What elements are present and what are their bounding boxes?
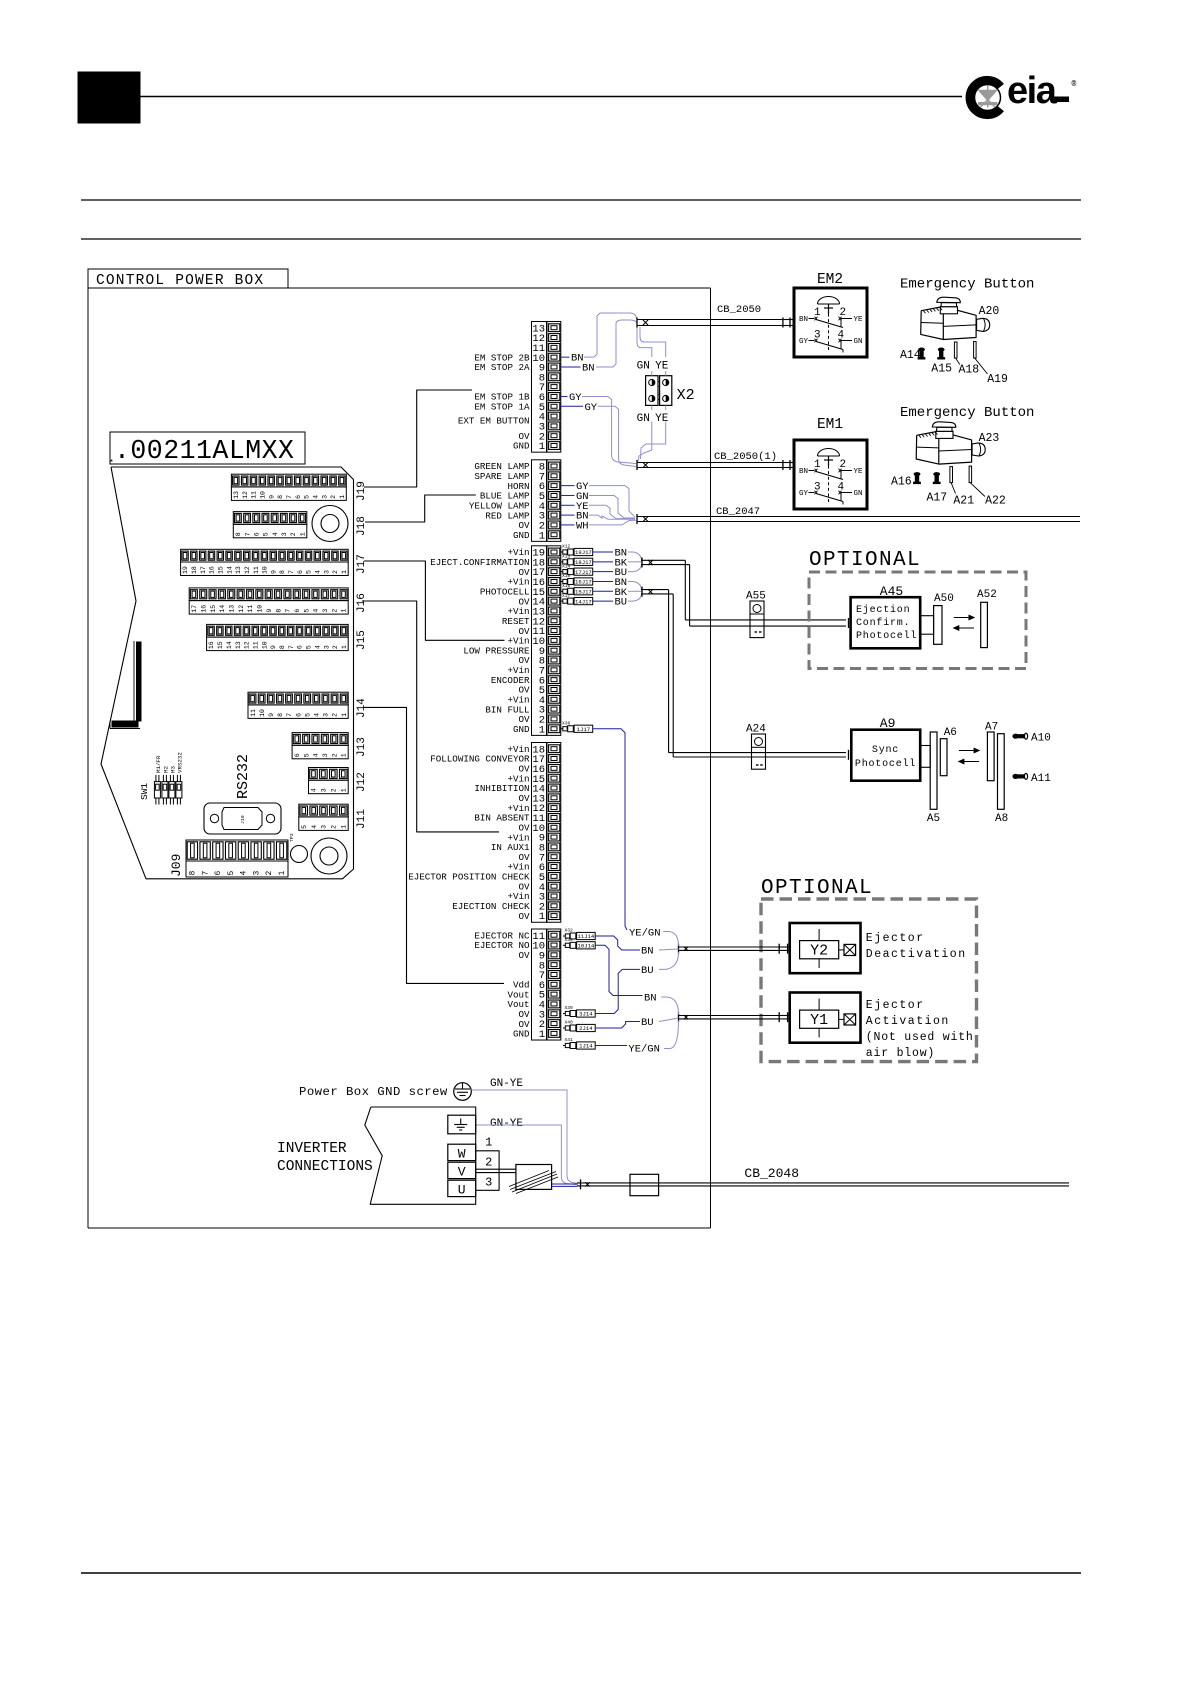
wire 1J14 to YE/GN — [595, 1045, 627, 1047]
emergency button A23 assembly — [913, 422, 985, 483]
svg-text:13: 13 — [235, 641, 242, 649]
terminal block (lamps/horn) — [469, 460, 561, 543]
svg-text:9: 9 — [270, 645, 277, 649]
svg-text:3: 3 — [321, 788, 328, 792]
lens A6 — [940, 739, 947, 776]
connector J12 — [309, 768, 349, 794]
svg-text:GN: GN — [854, 490, 863, 498]
svg-text:CB_2050(1): CB_2050(1) — [714, 451, 777, 463]
svg-text:4: 4 — [313, 753, 320, 757]
svg-text:9: 9 — [266, 609, 273, 613]
svg-text:EM2: EM2 — [817, 272, 843, 288]
svg-text:X36: X36 — [562, 720, 571, 726]
svg-text:CB_2050: CB_2050 — [717, 304, 761, 316]
A9 snout — [920, 746, 930, 768]
connector J13 — [292, 733, 348, 759]
wire lamp pin5 — [561, 494, 575, 496]
svg-text:RS232: RS232 — [235, 754, 252, 799]
svg-text:3: 3 — [323, 645, 330, 649]
screw A11 — [1012, 773, 1027, 779]
svg-text:CB_2048: CB_2048 — [744, 1166, 799, 1181]
svg-text:A23: A23 — [979, 432, 1000, 445]
cable CB_2048 — [577, 1179, 1069, 1189]
connector J14 — [248, 692, 348, 718]
svg-text:J13: J13 — [356, 737, 368, 757]
svg-text:BN: BN — [799, 468, 808, 476]
svg-text:1: 1 — [278, 871, 287, 876]
svg-text:4: 4 — [314, 713, 321, 717]
svg-text:J09: J09 — [169, 854, 184, 877]
svg-text:X2: X2 — [677, 387, 695, 404]
svg-text:.00211ALMXX: .00211ALMXX — [114, 436, 294, 466]
svg-text:2: 2 — [332, 570, 339, 574]
svg-text:J18: J18 — [356, 516, 368, 536]
svg-text:OV: OV — [518, 950, 530, 961]
svg-text:GY: GY — [585, 402, 598, 414]
svg-text:CB_2047: CB_2047 — [716, 506, 760, 518]
svg-text:Power Box GND screw: Power Box GND screw — [299, 1085, 448, 1099]
svg-text:GND: GND — [513, 724, 530, 735]
svg-text:5: 5 — [304, 713, 311, 717]
svg-text:CONTROL POWER BOX: CONTROL POWER BOX — [96, 273, 264, 289]
svg-text:2: 2 — [332, 645, 339, 649]
control power box outline — [88, 288, 711, 1228]
svg-text:9: 9 — [268, 713, 275, 717]
leader A22 — [970, 483, 985, 497]
DIP switch SW1 — [139, 752, 183, 805]
board mount hole top — [312, 506, 348, 542]
svg-text:A55: A55 — [746, 591, 766, 603]
svg-text:WH: WH — [576, 520, 589, 532]
A52 reflector — [981, 602, 988, 647]
beam arrows A9 — [959, 748, 979, 763]
connector J15 — [207, 624, 349, 650]
svg-text:YE: YE — [655, 361, 669, 373]
svg-text:A18: A18 — [959, 364, 980, 377]
bottom rule — [81, 1572, 1081, 1574]
wire WH 0V to CB_2047 — [589, 520, 636, 525]
svg-text:BN: BN — [799, 316, 808, 324]
ejector activation valve Y1 — [790, 993, 861, 1043]
svg-text:A6: A6 — [944, 727, 957, 739]
svg-text:7: 7 — [286, 713, 293, 717]
svg-text:7: 7 — [288, 570, 295, 574]
svg-text:11: 11 — [252, 641, 259, 649]
connector J16 — [189, 588, 348, 614]
svg-text:14: 14 — [219, 605, 226, 613]
wire 1J17 GND to YE/GN — [593, 729, 627, 930]
ground screw symbol — [454, 1083, 472, 1101]
svg-text:X41: X41 — [565, 1037, 574, 1043]
svg-text:8: 8 — [275, 609, 282, 613]
wire 17J17 to BU — [593, 571, 613, 573]
svg-text:J10: J10 — [240, 815, 246, 824]
svg-text:Photocell: Photocell — [855, 758, 916, 770]
svg-text:4: 4 — [313, 495, 320, 499]
svg-text:YE/GN: YE/GN — [629, 928, 661, 940]
svg-text:OV: OV — [518, 911, 530, 922]
svg-text:19J17: 19J17 — [575, 549, 592, 556]
wire pin10 BN — [561, 356, 570, 358]
connector J09 — [186, 840, 288, 877]
svg-text:YE/GN: YE/GN — [628, 1044, 660, 1056]
wire GY pin6 to CB_2050(1) — [582, 396, 636, 463]
svg-text:A19: A19 — [987, 373, 1008, 386]
svg-text:X13: X13 — [562, 554, 571, 560]
ferrule 15J17 — [561, 583, 593, 596]
svg-text:15: 15 — [217, 566, 224, 574]
wire W phase — [476, 1151, 499, 1191]
svg-text:4: 4 — [313, 609, 320, 613]
svg-text:2: 2 — [485, 1156, 492, 1170]
cable to ejection confirmation photocell — [641, 558, 849, 629]
svg-text:J15: J15 — [356, 630, 368, 650]
card edge connector — [110, 641, 141, 729]
svg-text:13: 13 — [235, 566, 242, 574]
svg-text:A24: A24 — [746, 724, 766, 736]
svg-text:1: 1 — [341, 645, 348, 649]
svg-text:4: 4 — [315, 570, 322, 574]
svg-text:12: 12 — [244, 641, 251, 649]
svg-text:5: 5 — [304, 495, 311, 499]
svg-text:J12: J12 — [356, 772, 368, 792]
svg-text:A15: A15 — [931, 363, 952, 376]
svg-text:Ejector: Ejector — [866, 999, 925, 1012]
svg-text:17: 17 — [200, 566, 207, 574]
sync photocell cable — [641, 587, 849, 760]
reflector A7 — [987, 732, 994, 781]
ferrule 3J14 — [563, 1005, 595, 1018]
svg-text:1: 1 — [340, 825, 347, 829]
svg-text:A14: A14 — [900, 349, 921, 362]
board mount hole bottom — [311, 838, 347, 874]
leader A21 — [951, 483, 955, 494]
svg-text:7: 7 — [285, 609, 292, 613]
svg-text:1J14: 1J14 — [579, 1043, 593, 1050]
svg-text:A8: A8 — [995, 813, 1008, 825]
header black square — [78, 72, 140, 123]
ejection confirm photocell A45 — [851, 597, 921, 648]
leader A19 — [975, 358, 988, 374]
emergency button A20 assembly — [918, 297, 990, 358]
wire GY horn to CB_2047 — [589, 486, 635, 518]
inverter banner outline — [365, 1107, 476, 1204]
svg-text:8: 8 — [279, 645, 286, 649]
wire X2 YE top — [640, 327, 666, 376]
svg-text:3: 3 — [321, 495, 328, 499]
svg-text:Sync: Sync — [872, 745, 899, 756]
wire GY pin5 to CB_2050(1) — [598, 406, 636, 466]
CB_2048 junction — [630, 1174, 659, 1195]
wire lamp pin4 — [561, 504, 575, 506]
svg-text:GN-YE: GN-YE — [490, 1118, 523, 1130]
wire 10J14 to BN — [595, 945, 643, 995]
svg-text:M3: M3 — [169, 766, 176, 773]
emergency switch EM1 — [794, 440, 867, 509]
ferrule 2J14 — [563, 1020, 595, 1032]
wire 3J14 to BU — [595, 969, 640, 1013]
svg-text:10: 10 — [262, 566, 269, 574]
svg-text:8: 8 — [235, 532, 242, 536]
svg-text:GN: GN — [854, 338, 863, 346]
header rule line — [140, 96, 962, 98]
optional dashed box (Y valves) — [761, 899, 977, 1062]
ferrule 16J17 — [561, 573, 593, 586]
top rule 2 — [81, 238, 1081, 240]
svg-text:GN: GN — [637, 413, 650, 425]
connector X2 — [646, 376, 672, 406]
svg-text:6: 6 — [214, 871, 223, 876]
svg-text:3: 3 — [252, 871, 261, 876]
svg-text:GND: GND — [513, 441, 530, 452]
svg-text:GN-YE: GN-YE — [490, 1078, 523, 1090]
svg-text:6: 6 — [295, 713, 302, 717]
svg-text:A45: A45 — [880, 584, 903, 599]
svg-text:3: 3 — [322, 753, 329, 757]
svg-text:15: 15 — [217, 641, 224, 649]
svg-text:Photocell: Photocell — [856, 630, 917, 642]
svg-text:14: 14 — [226, 641, 233, 649]
ferrule 17J17 — [561, 563, 593, 576]
svg-text:2: 2 — [840, 307, 847, 319]
svg-text:3J14: 3J14 — [579, 1011, 593, 1018]
connector J11 — [299, 804, 348, 830]
svg-text:1: 1 — [485, 1136, 492, 1150]
svg-text:18J17: 18J17 — [575, 559, 592, 566]
svg-text:FOLLOWING CONVEYOR: FOLLOWING CONVEYOR — [430, 754, 530, 765]
svg-text:YE: YE — [655, 413, 669, 425]
svg-text:Deactivation: Deactivation — [866, 948, 967, 961]
svg-text:GND: GND — [513, 530, 530, 541]
emergency switch EM2 — [794, 288, 867, 357]
svg-text:EJECTOR POSITION CHECK: EJECTOR POSITION CHECK — [408, 872, 530, 883]
svg-text:3: 3 — [322, 609, 329, 613]
sync photocell A9 — [851, 730, 920, 781]
wire pin9 BN — [561, 366, 581, 368]
svg-text:1: 1 — [341, 753, 348, 757]
svg-text:OPTIONAL: OPTIONAL — [809, 549, 921, 572]
svg-text:1: 1 — [341, 713, 348, 717]
terminal block J17 side (inputs) — [430, 546, 561, 737]
svg-text:2: 2 — [331, 753, 338, 757]
wire X2 GN bottom — [638, 405, 652, 461]
svg-text:1J17: 1J17 — [577, 726, 590, 733]
board outline — [101, 467, 354, 879]
svg-text:14: 14 — [226, 566, 233, 574]
wire lamp pin6 — [561, 485, 575, 487]
svg-text:GY: GY — [799, 338, 809, 346]
svg-text:6: 6 — [297, 570, 304, 574]
inverter terminal U — [448, 1180, 476, 1197]
svg-text:EM STOP 2A: EM STOP 2A — [474, 362, 530, 373]
wire X2 YE bottom — [641, 405, 666, 459]
CB_2048 blue leads — [552, 1184, 577, 1186]
svg-text:2: 2 — [331, 825, 338, 829]
svg-text:BN: BN — [582, 362, 595, 374]
svg-text:Emergency Button: Emergency Button — [900, 405, 1034, 421]
svg-text:A9: A9 — [880, 716, 896, 731]
wire lamp pin3 — [561, 514, 575, 516]
svg-text:17J17: 17J17 — [575, 569, 592, 576]
svg-text:®: ® — [1072, 80, 1077, 89]
svg-text:J19: J19 — [356, 481, 368, 501]
svg-text:Confirm.: Confirm. — [856, 617, 910, 629]
svg-text:X15: X15 — [562, 573, 571, 579]
cable to Y2 — [679, 944, 790, 954]
cable to Y1 — [679, 1012, 790, 1022]
svg-text:19: 19 — [182, 566, 189, 574]
wire BN pin10 to CB_2050 — [584, 313, 637, 357]
cable CB_2050(1) — [637, 460, 794, 470]
svg-text:10: 10 — [257, 605, 264, 613]
svg-text:16J17: 16J17 — [575, 579, 592, 586]
svg-text:Ejection: Ejection — [856, 604, 910, 616]
svg-text:8: 8 — [277, 713, 284, 717]
svg-text:3: 3 — [321, 825, 328, 829]
connector A55 — [750, 601, 764, 638]
wire J19 to EM STOP labels — [364, 390, 472, 487]
svg-text:2: 2 — [330, 495, 337, 499]
svg-text:Activation: Activation — [866, 1015, 950, 1028]
svg-text:GY: GY — [569, 392, 582, 404]
svg-text:X32: X32 — [565, 928, 574, 934]
wire BN pin9 to CB_2050 — [596, 320, 637, 367]
svg-text:U: U — [458, 1183, 466, 1198]
svg-text:OPTIONAL: OPTIONAL — [761, 877, 873, 900]
svg-text:4: 4 — [311, 788, 318, 792]
A45 snout — [920, 616, 933, 635]
Y2 text — [866, 932, 967, 961]
svg-text:11: 11 — [250, 709, 257, 717]
svg-text:5: 5 — [306, 645, 313, 649]
svg-text:INVERTER: INVERTER — [277, 1141, 347, 1157]
svg-text:1: 1 — [539, 530, 545, 542]
svg-text:6: 6 — [253, 532, 260, 536]
svg-text:3: 3 — [281, 532, 288, 536]
wire BN red lamp to CB_2047 — [589, 515, 635, 519]
svg-text:6: 6 — [295, 495, 302, 499]
svg-text:1: 1 — [539, 1029, 545, 1041]
svg-text:X12: X12 — [562, 544, 571, 550]
svg-text:J16: J16 — [356, 593, 368, 613]
svg-text:4: 4 — [240, 871, 249, 876]
wire 2J14 to BU — [595, 1022, 640, 1029]
svg-text:10: 10 — [259, 709, 266, 717]
wire J18 to BLUE LAMP label — [365, 495, 476, 522]
svg-text:SW1: SW1 — [139, 783, 150, 800]
ferrule 19J17 — [561, 544, 593, 557]
svg-text:11: 11 — [247, 605, 254, 613]
svg-text:1: 1 — [299, 532, 306, 536]
svg-text:3: 3 — [485, 1176, 492, 1190]
inverter earth terminal — [448, 1115, 476, 1134]
svg-text:11: 11 — [251, 491, 258, 499]
svg-text:15: 15 — [210, 605, 217, 613]
svg-text:4: 4 — [311, 825, 318, 829]
svg-text:3: 3 — [323, 570, 330, 574]
wire 16J17 to BN — [593, 580, 613, 582]
wire 19J17 to BN — [593, 551, 613, 553]
test point TP3 — [289, 833, 308, 862]
wire 14J17 to BU — [593, 600, 613, 602]
svg-text:BN: BN — [644, 993, 657, 1005]
svg-text:A10: A10 — [1031, 733, 1051, 745]
svg-text:15J17: 15J17 — [575, 588, 592, 595]
svg-text:1: 1 — [539, 724, 545, 736]
wire V phase bundle — [476, 1169, 516, 1172]
wire GN-YE from screw — [471, 1090, 578, 1184]
svg-text:11J14: 11J14 — [578, 933, 595, 940]
svg-text:J11: J11 — [356, 809, 368, 829]
terminal block J16 side (inputs) — [408, 743, 561, 924]
svg-text:12: 12 — [244, 566, 251, 574]
inverter terminal V — [448, 1162, 476, 1179]
svg-text:BU: BU — [615, 597, 628, 609]
svg-text:air blow): air blow) — [866, 1047, 935, 1060]
svg-text:2J14: 2J14 — [579, 1025, 593, 1032]
ferrule 11J14 — [563, 928, 595, 941]
svg-text:EXT EM BUTTON: EXT EM BUTTON — [458, 416, 530, 427]
svg-text:M1/FR: M1/FR — [155, 755, 162, 773]
svg-text:X17: X17 — [562, 593, 571, 599]
wire hooks photocell cable — [628, 581, 642, 589]
slit plate A8 — [998, 734, 1005, 810]
svg-text:GY: GY — [799, 490, 809, 498]
svg-text:16: 16 — [200, 605, 207, 613]
svg-text:X40: X40 — [565, 1020, 574, 1026]
svg-text:A20: A20 — [979, 305, 1000, 318]
connector J17 — [181, 549, 349, 575]
svg-text:1: 1 — [339, 495, 346, 499]
svg-text:M2: M2 — [162, 766, 169, 773]
A50 lens holder — [934, 606, 942, 645]
svg-text:EJECT.CONFIRMATION: EJECT.CONFIRMATION — [430, 557, 529, 568]
svg-text:(Not used with: (Not used with — [866, 1031, 974, 1044]
wire GN blue lamp to CB_2047 — [589, 495, 635, 518]
svg-text:TP3: TP3 — [289, 833, 295, 842]
svg-text:5: 5 — [306, 570, 313, 574]
svg-text:1: 1 — [340, 788, 347, 792]
terminal block X1 (EM stop) — [474, 322, 560, 454]
svg-text:6: 6 — [294, 609, 301, 613]
svg-text:BN: BN — [641, 946, 654, 958]
wire J17 to +Vin 10 — [364, 561, 505, 640]
svg-text:EM STOP 1A: EM STOP 1A — [474, 401, 530, 412]
svg-text:5: 5 — [263, 532, 270, 536]
svg-text:EM1: EM1 — [817, 417, 843, 433]
wire hooks eject-confirm cable — [628, 552, 642, 561]
svg-text:9: 9 — [268, 495, 275, 499]
svg-text:A21: A21 — [953, 494, 974, 507]
ferrule 10J14 — [563, 937, 595, 950]
wire 18J17 to BK — [593, 561, 613, 563]
svg-text:4: 4 — [272, 532, 279, 536]
svg-text:13: 13 — [233, 491, 240, 499]
terminal block J14 side (ejector) — [474, 929, 560, 1041]
svg-text:YE: YE — [854, 316, 864, 324]
svg-text:CONNECTIONS: CONNECTIONS — [277, 1159, 373, 1175]
svg-text:J17: J17 — [356, 554, 368, 574]
wire lamp pin2 — [561, 524, 575, 526]
svg-text:10: 10 — [261, 641, 268, 649]
svg-text:2: 2 — [332, 713, 339, 717]
connector J18 — [233, 512, 306, 538]
svg-text:W: W — [458, 1147, 466, 1162]
ejector deactivation valve Y2 — [790, 923, 861, 973]
RS232 connector J10 — [204, 803, 281, 834]
svg-text:BU: BU — [641, 1017, 654, 1029]
svg-text:11: 11 — [253, 566, 260, 574]
